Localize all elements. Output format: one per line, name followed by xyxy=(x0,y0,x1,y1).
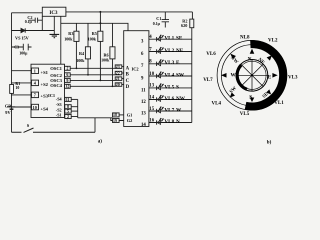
node R4 junction xyxy=(87,74,89,76)
svg-text:9V: 9V xyxy=(5,110,11,115)
battery GB xyxy=(8,106,15,108)
wire pin19 branch xyxy=(111,118,124,121)
svg-text:1: 1 xyxy=(34,69,36,74)
svg-text:OSC1: OSC1 xyxy=(50,66,62,71)
wire OSC3 to C xyxy=(70,79,115,81)
wire pin21 stub xyxy=(122,78,124,80)
pin 21 square xyxy=(115,77,122,81)
wheel rim black arc xyxy=(237,65,247,89)
svg-text:B: B xyxy=(126,73,130,78)
wire pin8 stub xyxy=(71,106,78,108)
svg-text:23: 23 xyxy=(116,65,120,69)
svg-text:2: 2 xyxy=(67,114,69,119)
pin 5 square xyxy=(65,109,71,113)
svg-text:0.1µ: 0.1µ xyxy=(153,22,161,26)
LED VL7 xyxy=(156,109,158,113)
svg-text:C3: C3 xyxy=(14,45,19,49)
svg-text:14: 14 xyxy=(149,95,154,100)
pin 1 square xyxy=(32,68,39,74)
svg-text:N: N xyxy=(176,119,180,125)
svg-text:13: 13 xyxy=(149,84,154,89)
svg-text:9: 9 xyxy=(66,78,68,83)
svg-text:14: 14 xyxy=(141,123,146,128)
wire pin4 stub xyxy=(12,82,32,84)
svg-text:b): b) xyxy=(267,140,272,145)
svg-text:VL8: VL8 xyxy=(164,119,174,125)
wire pin10 stub xyxy=(12,106,32,108)
wheel inner circle xyxy=(238,61,266,89)
LED VL8 xyxy=(156,120,158,124)
svg-text:S: S xyxy=(249,95,252,101)
wire R6 bottom xyxy=(112,59,114,86)
svg-text:+S2: +S2 xyxy=(41,82,49,87)
svg-text:20: 20 xyxy=(116,83,120,87)
svg-text:-S1: -S1 xyxy=(56,113,62,118)
wire pin23 stub xyxy=(122,66,124,68)
svg-text:4: 4 xyxy=(34,81,37,86)
svg-text:VL4: VL4 xyxy=(164,72,174,78)
svg-text:16: 16 xyxy=(149,118,154,123)
svg-text:18: 18 xyxy=(113,113,117,117)
node R6 junction xyxy=(112,85,114,87)
capacitor C2 xyxy=(29,18,42,23)
pin 2 lower square xyxy=(65,115,71,119)
wire rail corner to R2 xyxy=(191,12,193,19)
svg-text:0.1µ: 0.1µ xyxy=(25,20,33,24)
pin 11 square xyxy=(65,97,71,101)
svg-text:NW: NW xyxy=(176,96,186,102)
node rail junction top xyxy=(99,11,101,13)
svg-text:100µ: 100µ xyxy=(19,51,28,55)
wire pin18 stub xyxy=(119,114,124,116)
svg-text:VL7: VL7 xyxy=(164,107,174,113)
svg-text:VL4: VL4 xyxy=(212,102,222,107)
LED VL6 xyxy=(156,97,158,101)
svg-text:10: 10 xyxy=(149,72,154,77)
wire R5 top xyxy=(99,23,101,31)
svg-text:VL6: VL6 xyxy=(206,52,216,57)
svg-text:R4: R4 xyxy=(79,51,85,56)
wire output row VL4 xyxy=(149,75,192,77)
pin 6 square xyxy=(65,73,71,77)
wire R4 bottom xyxy=(87,59,89,75)
svg-text:SW: SW xyxy=(229,86,238,95)
svg-text:-S2: -S2 xyxy=(56,107,62,112)
svg-text:6: 6 xyxy=(141,52,144,57)
wire output row VL2 xyxy=(149,51,192,53)
svg-text:C1: C1 xyxy=(156,16,161,21)
svg-text:VS 15V: VS 15V xyxy=(15,36,30,41)
pin 10 square xyxy=(32,104,39,110)
svg-text:15: 15 xyxy=(149,107,154,112)
svg-text:12: 12 xyxy=(141,100,146,105)
svg-text:a): a) xyxy=(98,140,103,145)
svg-text:10: 10 xyxy=(15,86,19,90)
wire main supply rail xyxy=(66,11,192,13)
wire OSC1 to A xyxy=(70,67,115,69)
ground xyxy=(50,34,60,37)
wire OSC2 to B xyxy=(70,74,115,76)
svg-text:VL6: VL6 xyxy=(164,96,174,102)
pin 22 square xyxy=(115,71,122,75)
svg-text:9: 9 xyxy=(141,76,144,81)
decoder IC2 xyxy=(124,31,149,127)
svg-text:E: E xyxy=(268,74,272,80)
pin 12 square xyxy=(65,84,71,88)
svg-text:VL1: VL1 xyxy=(274,101,284,106)
wire VS branch xyxy=(12,30,55,32)
switch S xyxy=(12,128,96,132)
svg-text:W: W xyxy=(231,73,237,79)
wire LED cathode bus xyxy=(191,28,193,123)
pin 2 square xyxy=(65,66,71,70)
svg-text:3: 3 xyxy=(141,40,144,45)
svg-text:VL5: VL5 xyxy=(164,84,174,90)
svg-text:VL3: VL3 xyxy=(288,75,298,80)
wire R4 top xyxy=(87,23,89,47)
LED VL2 xyxy=(156,49,158,53)
node R3 junction xyxy=(76,67,78,69)
compass ring outer circle xyxy=(217,40,287,110)
svg-text:G2: G2 xyxy=(127,118,133,123)
resistor R2 xyxy=(190,19,194,28)
svg-text:19: 19 xyxy=(113,119,117,123)
pin 8 square xyxy=(65,105,71,109)
svg-text:A: A xyxy=(126,66,130,71)
svg-text:11: 11 xyxy=(141,88,146,93)
svg-text:2: 2 xyxy=(66,66,68,71)
svg-text:VL7: VL7 xyxy=(203,78,213,83)
wire IC3 output to logic xyxy=(60,16,62,64)
wire pin1 stub xyxy=(12,70,32,72)
wheel spokes xyxy=(236,60,268,92)
wire output row VL5 xyxy=(149,87,192,89)
indicator black band arc xyxy=(246,44,284,106)
svg-text:S: S xyxy=(27,123,30,128)
wheel outer circle xyxy=(236,60,268,92)
svg-text:VL3: VL3 xyxy=(164,60,174,66)
svg-text:22: 22 xyxy=(116,71,120,75)
resistor R6 xyxy=(110,47,115,59)
svg-text:+S1: +S1 xyxy=(41,70,49,75)
wire pin20 stub xyxy=(122,84,124,86)
svg-text:100k: 100k xyxy=(76,58,85,63)
svg-text:IC3: IC3 xyxy=(49,11,58,16)
svg-text:IC2: IC2 xyxy=(132,67,139,72)
wire output row VL6 xyxy=(149,99,192,101)
LED VL1 xyxy=(156,37,158,41)
resistor R3 xyxy=(74,31,79,41)
svg-text:100k: 100k xyxy=(88,36,97,41)
compass ring inner circle xyxy=(221,45,282,106)
pin 20 square xyxy=(115,83,122,87)
svg-text:N: N xyxy=(248,56,252,62)
LED VL4 xyxy=(156,74,158,78)
wire OSC4 to D xyxy=(70,85,115,87)
wire R6 top xyxy=(112,23,114,47)
svg-text:11: 11 xyxy=(66,97,70,102)
svg-text:+S4: +S4 xyxy=(41,107,49,112)
counter IC1 xyxy=(31,64,65,117)
svg-text:VL2: VL2 xyxy=(164,48,174,54)
svg-text:C: C xyxy=(126,79,130,84)
resistor R5 xyxy=(98,31,103,41)
wire pin5 stub xyxy=(71,110,78,112)
pin 7 square xyxy=(32,92,39,98)
svg-text:12: 12 xyxy=(65,84,69,89)
wire output row VL8 xyxy=(149,122,192,124)
wire minus-S bus xyxy=(77,99,79,117)
svg-text:100k: 100k xyxy=(101,58,110,63)
LED pointer triangles xyxy=(221,49,278,102)
LED VL3 xyxy=(156,62,158,66)
svg-text:IC1: IC1 xyxy=(48,93,55,98)
pin 19 square xyxy=(113,119,120,123)
wire gate bus xyxy=(78,117,113,119)
svg-text:SW: SW xyxy=(176,72,185,78)
wire output row VL1 xyxy=(149,38,192,40)
wire pin2 stub xyxy=(71,116,78,118)
pin 23 square xyxy=(115,65,122,69)
wire left rail xyxy=(11,13,13,132)
diode VS xyxy=(21,28,25,33)
wire R3 top xyxy=(75,23,77,31)
svg-text:NW: NW xyxy=(229,56,239,66)
svg-text:620: 620 xyxy=(181,23,187,28)
wire C2 right lead xyxy=(41,16,43,30)
wire riser to gate bus xyxy=(94,118,96,132)
svg-text:VL2: VL2 xyxy=(268,38,278,43)
svg-text:VL5: VL5 xyxy=(240,112,250,117)
wire pin7 stub xyxy=(12,94,32,96)
pin 4 square xyxy=(32,80,39,86)
svg-text:+S3: +S3 xyxy=(41,93,49,98)
svg-text:7: 7 xyxy=(34,93,36,98)
wire pin22 stub xyxy=(122,72,124,74)
capacitor C1 xyxy=(162,12,169,28)
svg-text:GB: GB xyxy=(5,104,11,109)
svg-text:SE: SE xyxy=(176,36,183,42)
wire rail drop xyxy=(99,12,101,23)
wire second rail to IC2 xyxy=(61,23,128,30)
svg-text:-S4: -S4 xyxy=(56,97,63,102)
svg-text:10: 10 xyxy=(33,105,37,110)
svg-text:S: S xyxy=(176,84,179,90)
svg-text:21: 21 xyxy=(116,77,120,81)
node second rail junction xyxy=(99,22,101,24)
svg-text:6: 6 xyxy=(66,72,68,77)
resistor R1 xyxy=(10,85,14,94)
capacitor C3 xyxy=(12,44,32,51)
svg-text:VL1: VL1 xyxy=(164,36,174,42)
svg-text:G1: G1 xyxy=(127,112,133,117)
wire pin11 stub xyxy=(71,98,78,100)
svg-text:13: 13 xyxy=(141,111,146,116)
resistor R4 xyxy=(85,47,90,59)
svg-text:7: 7 xyxy=(141,64,144,69)
LED VL5 xyxy=(156,86,158,90)
wire R5 bottom xyxy=(99,41,101,80)
wire output row VL3 xyxy=(149,63,192,65)
wire output row VL7 xyxy=(149,110,192,112)
wire IC3 ground pin xyxy=(53,16,55,34)
svg-text:100k: 100k xyxy=(64,36,73,41)
svg-text:NL8: NL8 xyxy=(240,35,250,40)
wire top feed to IC3 xyxy=(12,12,43,14)
svg-text:5: 5 xyxy=(67,109,69,114)
node R5 junction xyxy=(100,80,102,82)
svg-text:E: E xyxy=(176,60,180,66)
pin 18 square xyxy=(113,113,120,117)
wire R3 bottom xyxy=(75,41,77,68)
regulator IC3 xyxy=(42,7,66,16)
svg-text:NE: NE xyxy=(176,48,184,54)
pin 9 square xyxy=(65,78,71,82)
svg-text:W: W xyxy=(176,107,182,113)
svg-text:D: D xyxy=(126,85,130,90)
svg-text:OSC4: OSC4 xyxy=(50,83,62,88)
